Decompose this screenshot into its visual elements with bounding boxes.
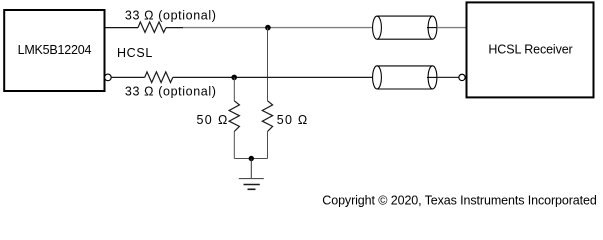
- ground symbol: [239, 179, 264, 190]
- IC U1 LMK5B12204 box: [4, 10, 104, 91]
- wire termination bottom connector: [234, 158, 267, 160]
- IC U2 HCSL Receiver box: [467, 2, 594, 97]
- inversion bubble at LMK5B12204 OUT-: [105, 74, 112, 81]
- wire T2 to receiver bubble: [437, 76, 460, 78]
- junction node top: [265, 25, 271, 31]
- wire R3 bottom down: [233, 132, 235, 159]
- wire R2 to transmission line bottom: [173, 76, 373, 78]
- svg-text:HCSL: HCSL: [117, 46, 152, 60]
- transmission line T1 top: [373, 16, 437, 39]
- svg-text:Copyright © 2020, Texas Instru: Copyright © 2020, Texas Instruments Inco…: [322, 193, 597, 207]
- wire junction top down to R4: [267, 28, 269, 101]
- resistor R2 33 ohm series bottom: [145, 72, 173, 83]
- junction node ground: [249, 156, 254, 161]
- svg-text:33 Ω (optional): 33 Ω (optional): [125, 85, 216, 99]
- resistor R1 33 ohm series top: [138, 22, 166, 32]
- wire T1 to receiver (gray): [437, 27, 467, 29]
- wire R4 bottom down: [267, 132, 269, 159]
- wire R1 black stub: [166, 27, 183, 29]
- wire OUT- from bubble to R2: [111, 76, 145, 78]
- wire junction bottom down to R3: [233, 77, 235, 100]
- wire ground stem: [250, 159, 252, 179]
- wire OUT+ from LMK5B12204 to R1: [105, 27, 139, 29]
- inversion bubble at receiver input: [459, 74, 465, 80]
- resistor R3 50 ohm termination left: [229, 101, 239, 132]
- svg-text:HCSL Receiver: HCSL Receiver: [488, 43, 572, 57]
- svg-text:LMK5B12204: LMK5B12204: [18, 43, 92, 57]
- junction node bottom: [231, 75, 237, 81]
- wire R1 to transmission line top (gray): [183, 27, 373, 29]
- svg-text:33 Ω (optional): 33 Ω (optional): [125, 8, 216, 22]
- resistor R4 50 ohm termination right: [262, 101, 272, 132]
- transmission line T2 bottom: [373, 66, 437, 89]
